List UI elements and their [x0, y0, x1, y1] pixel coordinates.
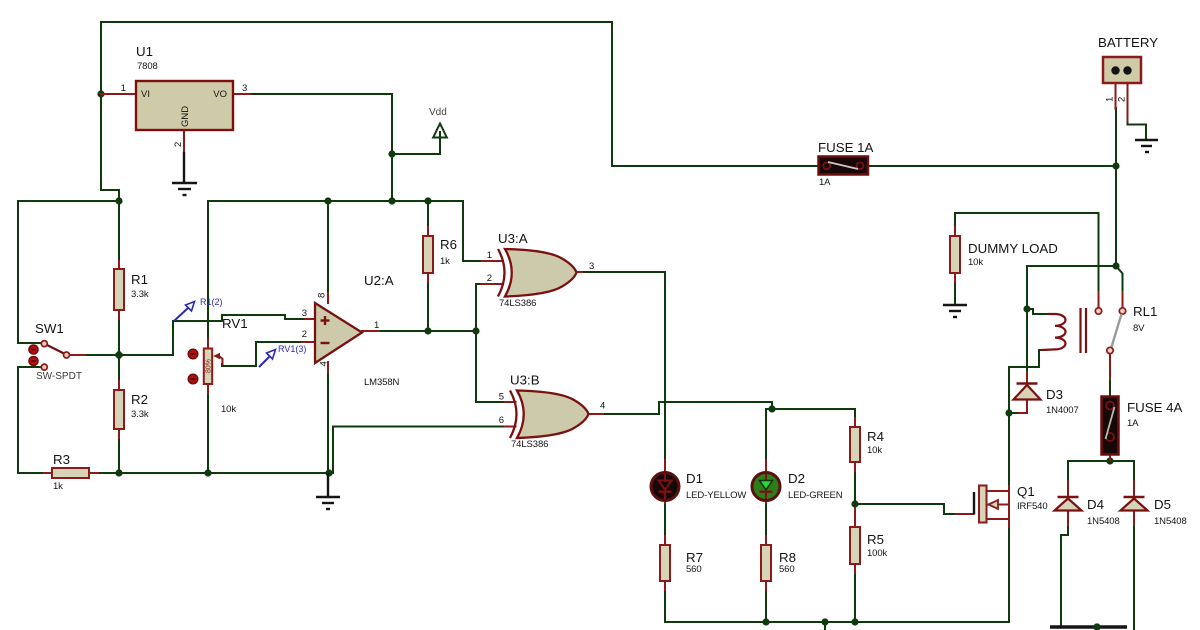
pin opamp minus	[302, 341, 315, 343]
pin U1 VI	[101, 93, 136, 95]
pin battery 2	[1127, 83, 1129, 121]
node D2/R4 branch	[768, 405, 775, 412]
wire D2 to R8	[765, 502, 767, 537]
svg-text:8V: 8V	[1133, 323, 1145, 334]
svg-text:R6: R6	[440, 237, 457, 252]
svg-text:1: 1	[1105, 97, 1116, 102]
svg-text:5: 5	[499, 392, 504, 403]
pin relay contact left	[1098, 292, 1100, 307]
pin dummy load bottom	[954, 273, 956, 282]
svg-text:1N5408: 1N5408	[1154, 516, 1187, 527]
pin opamp 4	[327, 362, 329, 372]
svg-text:1A: 1A	[819, 177, 831, 188]
wire coil bottom to D3 node	[1009, 350, 1041, 413]
pin D5 cathode	[1133, 481, 1135, 497]
potentiometer RV1	[188, 316, 247, 415]
pin D4 cathode	[1067, 481, 1069, 497]
LED D2 green (on)	[752, 471, 843, 501]
wire fuse4A bottom node	[1109, 458, 1111, 461]
node rail R8	[762, 618, 769, 625]
pin R6 bottom	[427, 273, 429, 282]
relay contact right	[1119, 308, 1125, 314]
svg-text:IRF540: IRF540	[1017, 501, 1048, 512]
wire SW1 pole to divider node	[84, 354, 119, 356]
node R6 bottom	[424, 327, 431, 334]
ground under U1	[172, 152, 197, 195]
node coil top	[1023, 305, 1030, 312]
resistor R7	[660, 545, 703, 581]
ground dummy load	[943, 305, 967, 317]
wire noninverting input from divider node	[119, 315, 306, 355]
svg-text:U3:A: U3:A	[498, 231, 528, 246]
node divider mid	[114, 350, 124, 360]
node XOR branch	[472, 327, 479, 334]
wire gate node to R5 top	[854, 504, 856, 519]
pin R5 bottom	[854, 564, 856, 573]
wire ground stub under opamp	[327, 473, 329, 494]
pin opamp 8	[327, 293, 329, 303]
node U1 pin1	[97, 90, 104, 97]
svg-text:FUSE 1A: FUSE 1A	[818, 140, 874, 155]
svg-text:R8: R8	[779, 550, 796, 565]
node opamp pin8 rail	[324, 197, 331, 204]
node bottom rail RV1	[204, 469, 211, 476]
wire dummy load bottom to ground	[954, 281, 956, 304]
probe arrow RV1(3)	[259, 344, 306, 367]
pin R3 right	[89, 472, 98, 474]
svg-text:RL1: RL1	[1133, 304, 1157, 319]
svg-text:3: 3	[302, 308, 307, 319]
pin R7 top	[664, 536, 666, 545]
relay RL1 coil	[1042, 304, 1157, 354]
resistor R2	[114, 390, 149, 429]
fuse FUSE 1A	[818, 140, 874, 188]
pin RV1 bottom	[207, 383, 209, 393]
node bottom rail opamp gnd	[325, 469, 332, 476]
svg-text:10k: 10k	[968, 257, 983, 268]
svg-text:Q1: Q1	[1017, 484, 1035, 499]
resistor R5	[850, 527, 888, 564]
wire rail y201 left to SW1 throw1	[18, 201, 119, 343]
regulator U1 body	[121, 44, 248, 147]
RV1 wiper arrow	[213, 353, 220, 359]
svg-text:1k: 1k	[53, 481, 63, 492]
XOR gate U3:A	[487, 231, 595, 309]
node rail stub	[821, 618, 828, 625]
wire RV1 bottom	[207, 392, 209, 473]
pin D3 cathode	[1026, 372, 1028, 384]
wire R1 bottom to node	[118, 318, 120, 355]
wire R1 top	[118, 201, 120, 262]
wire RV1 wiper to inverting input	[222, 342, 303, 366]
svg-text:3.3k: 3.3k	[131, 289, 149, 300]
wire opamp output rail	[378, 330, 476, 332]
wire bottom stub	[824, 622, 826, 630]
svg-text:D5: D5	[1154, 497, 1171, 512]
pin U1 VO	[233, 93, 250, 95]
SW1 terminal marker top	[29, 345, 38, 354]
pin R2 top	[118, 381, 120, 390]
svg-text:FUSE 4A: FUSE 4A	[1127, 400, 1183, 415]
wire top rail U1 pin1 to fuse	[101, 22, 818, 166]
pin Q1 drain vertical	[1008, 486, 1010, 491]
svg-text:GND: GND	[180, 106, 191, 127]
node ground bar right	[1093, 623, 1100, 630]
pin R6 top	[427, 227, 429, 236]
wire Q1 drain up to D3 node	[1008, 413, 1010, 487]
pin R2 bottom	[118, 429, 120, 438]
svg-text:6: 6	[499, 415, 504, 426]
node bottom rail R2	[115, 469, 122, 476]
SW1 lever arm	[46, 345, 65, 355]
node on ground bar	[1093, 623, 1100, 630]
svg-text:R4: R4	[867, 429, 884, 444]
wire R5 bottom to bottom rail	[854, 572, 856, 622]
relay contact left	[1095, 308, 1101, 314]
svg-text:74LS386: 74LS386	[511, 439, 548, 450]
pin XOR B in5	[505, 401, 516, 403]
resistor DUMMY LOAD	[950, 236, 1058, 273]
node +V relay	[1112, 262, 1119, 269]
pin D3 anode horizontal	[1019, 412, 1027, 414]
node R6 top rail	[424, 197, 431, 204]
svg-text:DUMMY LOAD: DUMMY LOAD	[968, 241, 1058, 256]
pin opamp out	[362, 330, 379, 332]
wire U1 pin1 jog down to R1 node	[101, 94, 119, 201]
wire node to D5	[1110, 461, 1134, 482]
svg-text:10k: 10k	[221, 404, 236, 415]
wire opamp pin8	[327, 201, 329, 294]
wire jog +V node to relay NO contact	[1116, 266, 1123, 293]
RV1 terminal marker top	[188, 349, 198, 359]
pin XOR B out	[589, 413, 604, 415]
node R1 top	[115, 197, 122, 204]
svg-text:1: 1	[121, 83, 126, 94]
LED D1 yellow (off)	[651, 471, 746, 501]
pin relay contact right	[1122, 292, 1124, 307]
node VO rail	[388, 197, 395, 204]
svg-text:RV1(3): RV1(3)	[278, 344, 306, 354]
svg-text:U1: U1	[136, 44, 153, 59]
fuse FUSE 4A	[1102, 397, 1183, 455]
svg-text:7808: 7808	[137, 61, 158, 72]
pin relay pole	[1109, 354, 1111, 379]
resistor R1	[114, 269, 149, 310]
wire coil top feed	[1027, 309, 1049, 314]
wire rail to XOR A pin1	[463, 201, 491, 261]
wire U1 VO to Vdd node	[249, 94, 392, 201]
svg-text:1A: 1A	[1127, 418, 1139, 429]
wire RV1 top	[207, 201, 209, 340]
node drain/D3	[1005, 409, 1012, 416]
svg-text:R1: R1	[131, 272, 148, 287]
wire XOR A output down to D1	[581, 272, 665, 461]
SW1 throw2 contact	[41, 364, 47, 370]
svg-text:LED-GREEN: LED-GREEN	[788, 490, 843, 501]
svg-text:1: 1	[487, 250, 492, 261]
node fuse4A bottom	[1106, 457, 1113, 464]
svg-text:8: 8	[317, 293, 328, 298]
wire fuse to battery vertical	[868, 165, 1116, 167]
wire battery pin1 down	[1115, 108, 1117, 266]
svg-text:U3:B: U3:B	[510, 373, 540, 388]
svg-text:1k: 1k	[440, 256, 450, 267]
wire R8 to bottom rail	[765, 589, 767, 622]
svg-text:1: 1	[374, 320, 379, 331]
svg-text:Vdd: Vdd	[429, 107, 447, 118]
svg-text:10k: 10k	[867, 445, 882, 456]
wire R6 bottom	[427, 281, 429, 331]
wire node to R4 top	[772, 409, 855, 419]
battery BATTERY	[1098, 35, 1158, 102]
svg-text:3: 3	[589, 261, 594, 272]
svg-text:2: 2	[487, 273, 492, 284]
svg-text:BATTERY: BATTERY	[1098, 35, 1158, 50]
svg-text:74LS386: 74LS386	[499, 298, 536, 309]
pin R7 bottom	[664, 581, 666, 590]
wire battery pin2 to ground	[1128, 120, 1147, 139]
pin opamp plus	[305, 318, 315, 320]
pin XOR A in2	[481, 283, 503, 285]
svg-text:D3: D3	[1046, 387, 1063, 402]
svg-text:R1(2): R1(2)	[200, 297, 223, 307]
wire gate node to Q1 gate	[855, 504, 957, 514]
node Vdd tap	[388, 150, 395, 157]
pin XOR A out	[577, 271, 582, 273]
op-amp U2:A	[302, 273, 400, 388]
svg-text:SW1: SW1	[35, 321, 64, 336]
wire LED bottom rail	[665, 621, 1009, 623]
pin SW1 pole	[70, 354, 85, 356]
pin D2 bottom	[765, 500, 767, 503]
pin D5 anode	[1133, 510, 1135, 525]
svg-text:R3: R3	[53, 452, 70, 467]
pin R4 top	[854, 418, 856, 427]
pin fuse4A bottom	[1109, 455, 1111, 460]
ground under op-amp	[316, 473, 340, 509]
svg-text:D2: D2	[788, 471, 805, 486]
svg-text:4: 4	[319, 361, 330, 366]
svg-text:VO: VO	[213, 89, 227, 100]
wire rail y201	[208, 200, 463, 202]
XOR gate U3:B	[499, 373, 606, 451]
wire coil node down to D3 cathode	[1026, 309, 1028, 373]
svg-text:100k: 100k	[867, 548, 888, 559]
wire D1 to R7	[664, 502, 666, 537]
SW1 pole contact	[64, 352, 70, 358]
ground bar bottom right	[1050, 625, 1127, 629]
pin Q1 gate	[956, 513, 973, 515]
resistor R6	[423, 236, 457, 273]
svg-text:1N5408: 1N5408	[1087, 516, 1120, 527]
wire Vdd branch	[392, 136, 440, 154]
pin D2 top	[765, 460, 767, 472]
wire D3 node to anode	[1009, 412, 1020, 414]
svg-text:D1: D1	[686, 471, 703, 486]
wire R6 top	[427, 201, 429, 228]
wire branch to XOR A pin2	[476, 284, 491, 331]
pin U1 GND	[183, 130, 185, 152]
RV1 terminal marker bottom	[188, 374, 198, 384]
pin battery 1	[1115, 83, 1117, 109]
svg-text:SW-SPDT: SW-SPDT	[36, 371, 82, 382]
svg-text:R5: R5	[867, 532, 884, 547]
svg-text:VI: VI	[141, 89, 150, 100]
svg-text:4: 4	[600, 401, 605, 412]
svg-text:R7: R7	[686, 550, 703, 565]
svg-text:LED-YELLOW: LED-YELLOW	[686, 490, 746, 501]
pin XOR B in6	[505, 426, 516, 428]
pin R1 bottom	[118, 310, 120, 319]
svg-text:U2:A: U2:A	[364, 273, 394, 288]
svg-text:3: 3	[242, 83, 247, 94]
node fuse1A/battery	[1112, 162, 1119, 169]
pin XOR A in1	[482, 260, 503, 262]
wire +V to coil node	[1027, 266, 1116, 309]
wire XOR B pin6 to ground rail	[333, 427, 506, 474]
pin R4 bottom	[854, 462, 856, 471]
pin R1 top	[118, 261, 120, 269]
pin R3 left	[44, 472, 52, 474]
wire D4 anode to ground bar	[1061, 524, 1068, 626]
wire dummy load top rail	[955, 213, 1099, 293]
pin RV1 top	[207, 339, 209, 349]
wire Q1 source down	[1008, 526, 1010, 622]
wire D5 anode down off page	[1133, 524, 1135, 630]
wire branch to XOR B pin5	[476, 331, 506, 402]
resistor R4	[850, 427, 884, 462]
red pin stubs	[44, 83, 1134, 590]
pin D1 top	[664, 460, 666, 472]
svg-text:80%: 80%	[206, 359, 213, 373]
svg-text:RV1: RV1	[222, 316, 248, 331]
relay pole contact	[1107, 347, 1113, 353]
svg-text:R2: R2	[131, 392, 148, 407]
diode D5	[1121, 497, 1187, 527]
svg-text:LM358N: LM358N	[364, 377, 400, 388]
pin D1 bottom	[664, 500, 666, 503]
pin D4 anode	[1067, 510, 1069, 525]
wire node to D4	[1068, 461, 1110, 482]
svg-text:2: 2	[173, 142, 184, 147]
wire relay pole down to fuse4A	[1109, 378, 1111, 397]
pin R8 top	[765, 536, 767, 545]
mosfet Q1	[974, 484, 1048, 523]
pin dummy load top	[954, 227, 956, 236]
diode D4	[1055, 497, 1120, 527]
Vdd symbol	[429, 107, 447, 138]
wire R4 bottom to gate node	[854, 470, 856, 504]
resistor R3	[52, 452, 89, 492]
wire node to D2 top	[766, 409, 772, 461]
svg-text:2: 2	[1117, 97, 1128, 102]
svg-text:560: 560	[686, 564, 702, 575]
svg-text:560: 560	[779, 564, 795, 575]
ground battery	[1135, 140, 1158, 152]
wire R7 to bottom rail	[664, 589, 666, 622]
wire SW1 throw2 to R3	[18, 367, 44, 473]
probe arrow R1(2)	[174, 297, 223, 321]
SW1 terminal marker bottom	[29, 356, 38, 365]
svg-text:1N4007: 1N4007	[1046, 405, 1079, 416]
svg-text:D4: D4	[1087, 497, 1104, 512]
wire XOR B output to D2/R4 node	[602, 402, 772, 414]
SW1 throw1 contact	[41, 341, 47, 347]
pin R8 bottom	[765, 581, 767, 590]
pin Q1 source vertical	[1008, 519, 1010, 527]
wire bottom-left ground rail	[97, 472, 333, 474]
node gate	[851, 500, 858, 507]
wire opamp pin4 to ground rail	[327, 371, 329, 473]
wire R2 bottom to bottom rail	[118, 437, 120, 473]
resistor R8	[761, 545, 796, 581]
node rail R5	[851, 618, 858, 625]
pin D3 anode	[1026, 399, 1028, 413]
svg-text:2: 2	[302, 329, 307, 340]
pin R5 top	[854, 508, 856, 527]
switch SW1	[29, 321, 82, 382]
svg-text:3.3k: 3.3k	[131, 409, 149, 420]
diode D3	[1014, 384, 1079, 417]
relay arm	[1112, 314, 1122, 347]
wire node to R2 top	[118, 355, 120, 382]
